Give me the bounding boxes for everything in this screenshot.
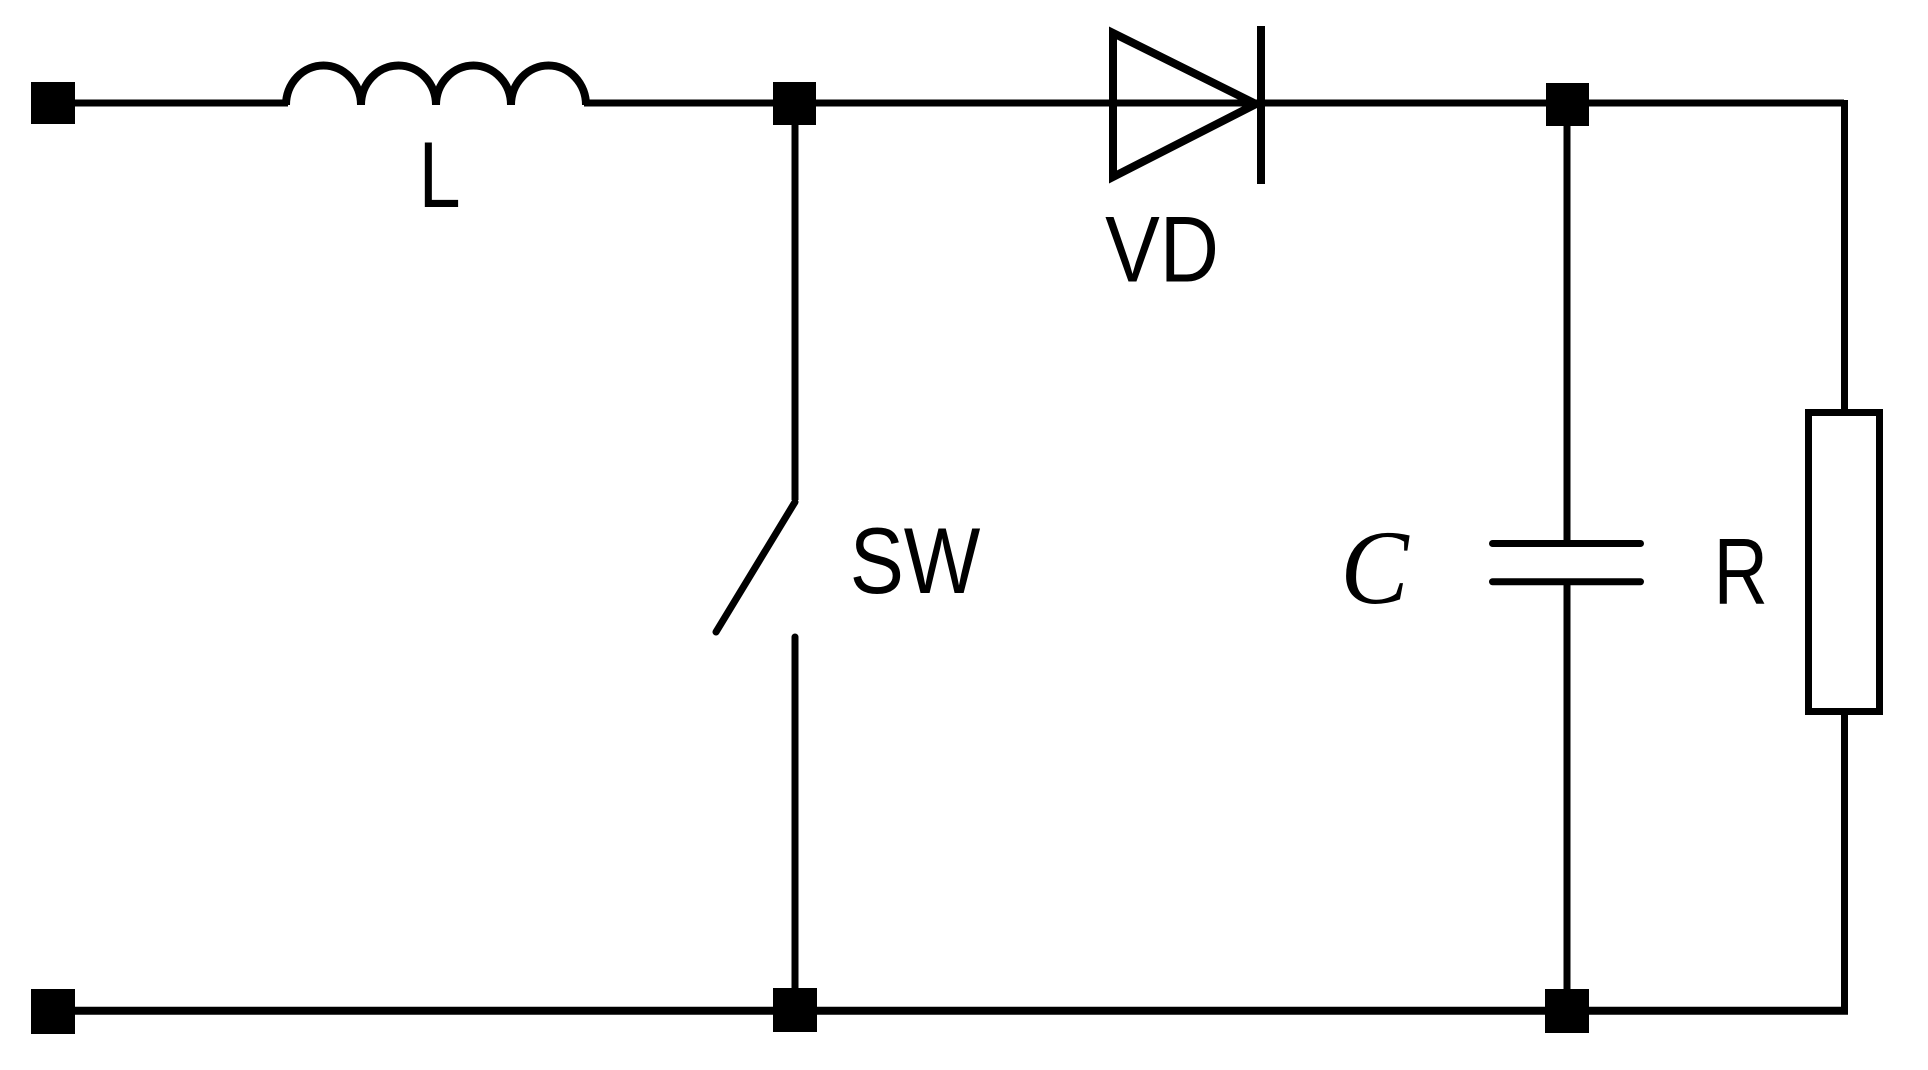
node bottom (capacitor) (1545, 989, 1589, 1033)
wire bottom rail (53, 1007, 1848, 1015)
switch SW blade (716, 502, 795, 632)
wire top rail middle segment (584, 100, 1844, 107)
capacitor C bottom plate (1493, 578, 1641, 585)
wire resistor bottom to bottom rail (1841, 715, 1848, 1012)
node top (capacitor tap) (1546, 83, 1589, 126)
capacitor C upper wire (1564, 103, 1571, 540)
switch SW lower wire (792, 637, 799, 1010)
wire top rail left segment (53, 100, 288, 107)
inductor L (286, 66, 586, 106)
capacitor C lower wire (1564, 585, 1571, 1010)
diode VD triangle (1113, 33, 1256, 177)
svg-text:VD: VD (1105, 196, 1219, 301)
terminal bottom-left (31, 989, 75, 1034)
diode VD cathode bar (1257, 26, 1265, 184)
node bottom (switch) (773, 988, 817, 1032)
wire right side down to resistor (1841, 100, 1848, 412)
svg-text:C: C (1340, 509, 1410, 626)
svg-text:L: L (419, 122, 461, 227)
switch SW upper wire (792, 103, 799, 500)
node top (switch tap) (773, 82, 816, 125)
svg-text:R: R (1714, 519, 1768, 624)
resistor R body (1809, 413, 1880, 712)
terminal top-left (31, 82, 75, 124)
svg-text:SW: SW (850, 508, 981, 613)
capacitor C top plate (1493, 540, 1641, 547)
